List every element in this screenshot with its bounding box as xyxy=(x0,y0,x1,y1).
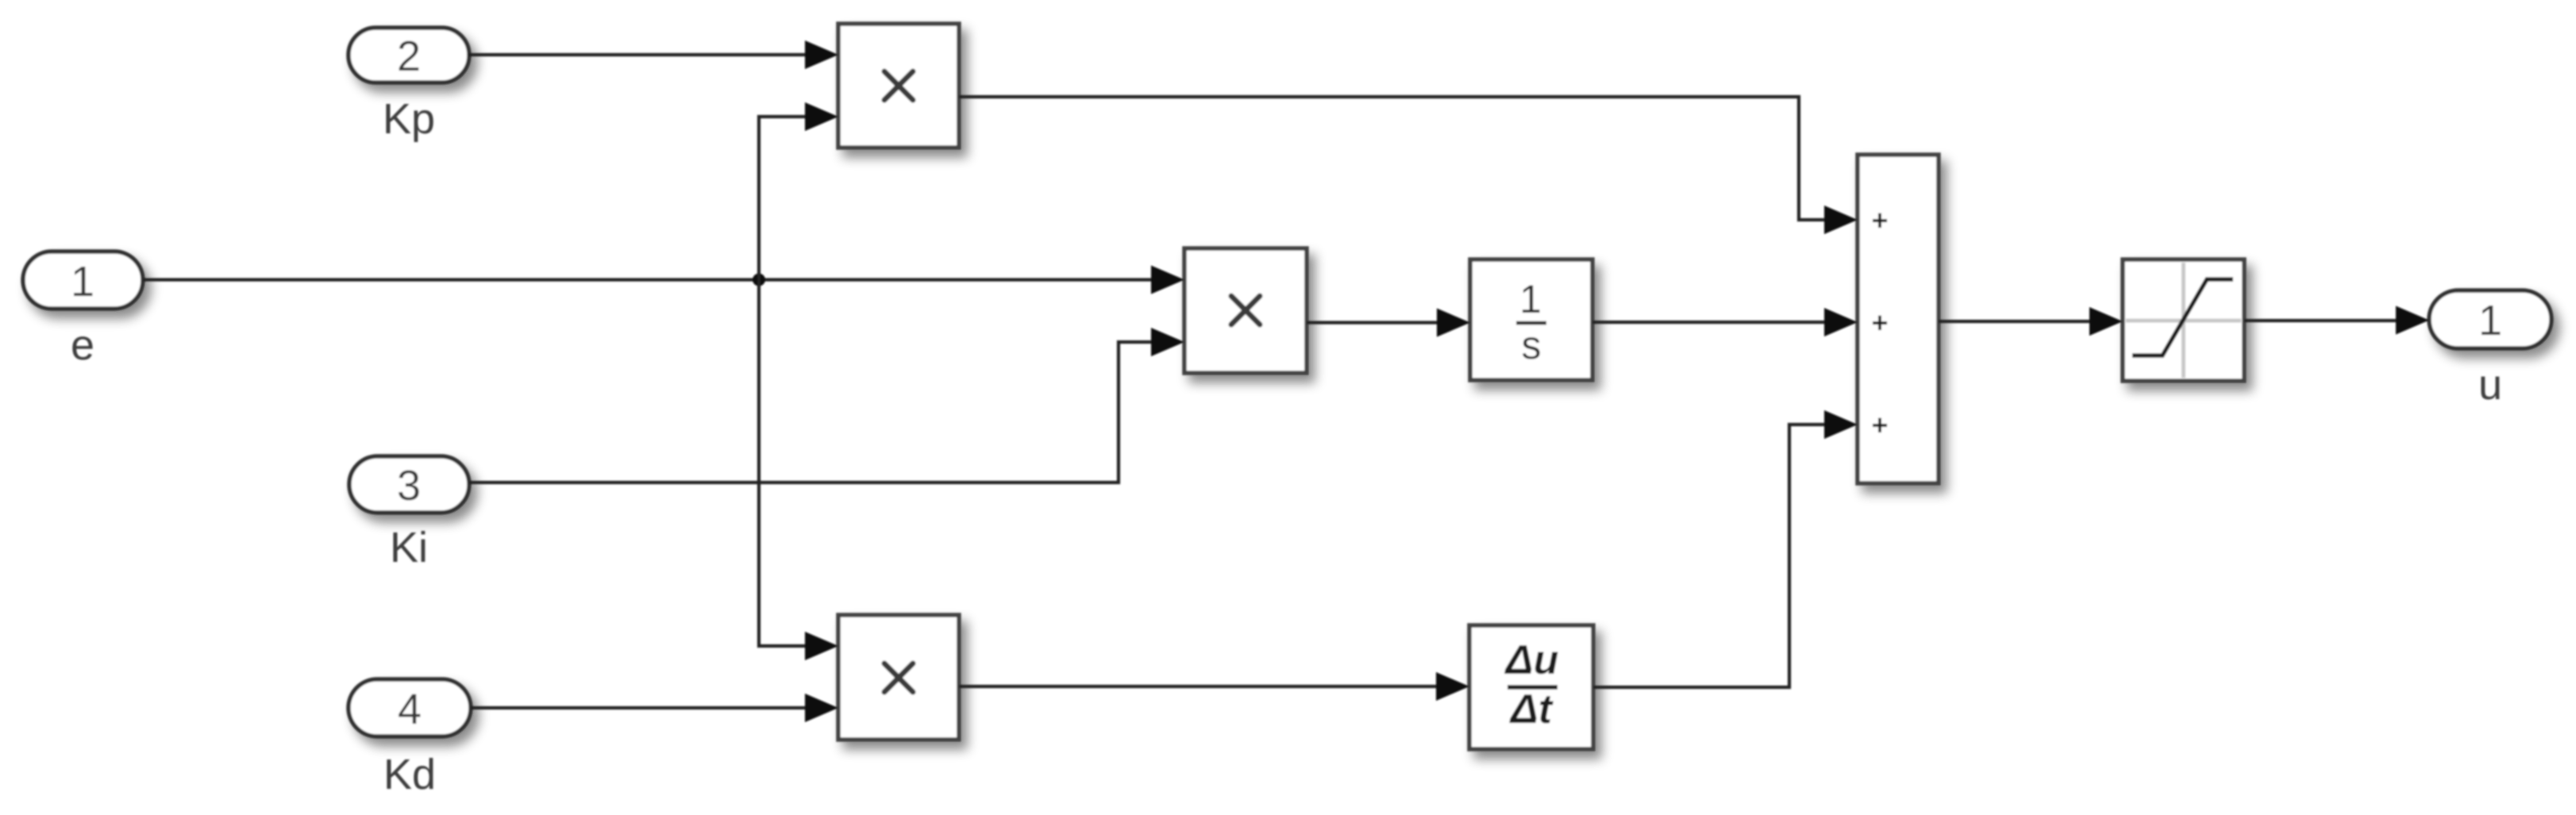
svg-text:+: + xyxy=(1871,306,1888,339)
svg-text:Δt: Δt xyxy=(1509,686,1554,732)
saturation curve xyxy=(2132,279,2233,356)
wire trunk from junction up to product U1 input 2 xyxy=(759,102,838,280)
svg-text:Ki: Ki xyxy=(390,524,428,571)
svg-text:+: + xyxy=(1871,409,1888,441)
outport 1 (u) xyxy=(2429,290,2551,348)
integrator block 1/s xyxy=(1470,259,1592,380)
product block U3 (Kd x e) xyxy=(838,615,959,740)
wire integrator output to sum input 2 xyxy=(1592,308,1858,336)
wire product U1 output to sum input 1 xyxy=(959,97,1858,234)
svg-text:Δu: Δu xyxy=(1504,637,1559,683)
saturation axes xyxy=(2181,263,2185,378)
svg-text:Kd: Kd xyxy=(383,751,436,798)
svg-text:4: 4 xyxy=(398,686,422,733)
derivative block du/dt xyxy=(1469,625,1593,749)
product block U2 (Ki x e) xyxy=(1184,248,1307,373)
svg-text:u: u xyxy=(2478,361,2502,409)
junction node on e wire xyxy=(753,274,765,286)
wire Ki to product U2 input 2 xyxy=(469,328,1184,482)
svg-text:s: s xyxy=(1522,323,1542,367)
svg-text:1: 1 xyxy=(71,258,94,306)
svg-text:e: e xyxy=(71,321,94,369)
svg-text:3: 3 xyxy=(397,462,421,509)
wire derivative output to sum input 3 xyxy=(1593,410,1858,687)
wire Kp to product U1 input 1 xyxy=(468,40,838,69)
wire sum output to saturation xyxy=(1939,307,2123,336)
svg-text:+: + xyxy=(1871,204,1888,236)
inport 1 (e) xyxy=(23,252,143,309)
wire product U2 output to integrator xyxy=(1307,309,1470,337)
wire trunk from junction down to product U3 input 1 xyxy=(759,280,838,661)
svg-text:1: 1 xyxy=(1519,277,1542,321)
inport 2 (Kp) xyxy=(348,28,469,83)
wire e from inport to product U2 input 1 xyxy=(143,266,1184,294)
wire saturation output to outport u xyxy=(2244,306,2429,335)
wire Kd to product U3 input 2 xyxy=(471,694,838,722)
svg-text:2: 2 xyxy=(397,33,421,80)
svg-text:1: 1 xyxy=(2478,297,2502,344)
wire product U3 output to derivative xyxy=(959,672,1469,701)
inport 3 (Ki) xyxy=(349,456,469,513)
sum block Add xyxy=(1858,155,1939,483)
saturation block xyxy=(2123,259,2244,381)
svg-text:Kp: Kp xyxy=(383,95,435,143)
inport 4 (Kd) xyxy=(348,679,471,736)
product block U1 (Kp x e) xyxy=(838,24,959,148)
